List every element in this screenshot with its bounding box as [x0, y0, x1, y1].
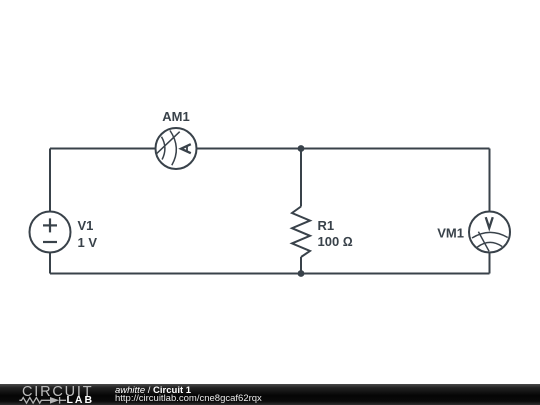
svg-text:R1: R1: [318, 218, 335, 233]
svg-text:VM1: VM1: [437, 226, 464, 241]
svg-text:V1: V1: [78, 218, 94, 233]
svg-text:AM1: AM1: [162, 109, 189, 124]
svg-text:1 V: 1 V: [78, 235, 98, 250]
svg-text:100 Ω: 100 Ω: [318, 234, 353, 249]
